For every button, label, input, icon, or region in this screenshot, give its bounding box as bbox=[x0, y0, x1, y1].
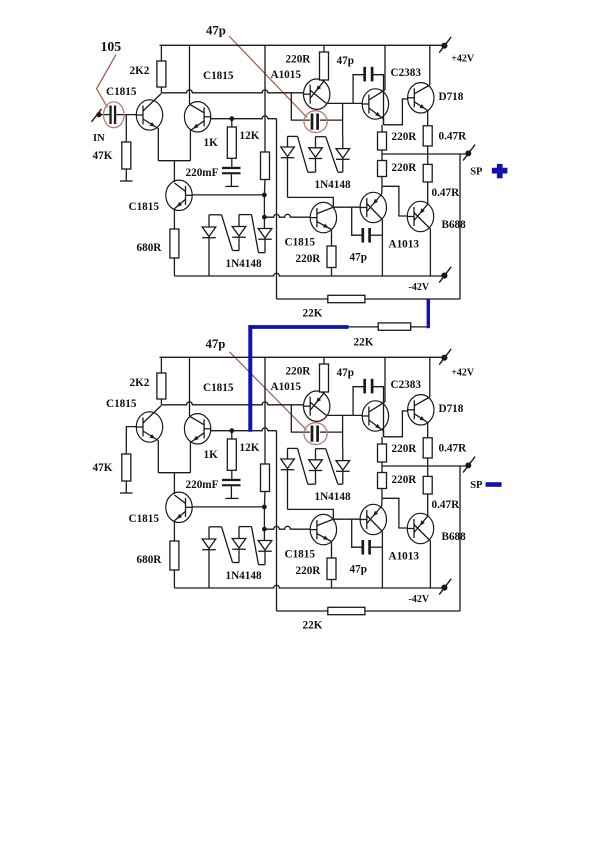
resistor 12K bbox=[240, 45, 270, 195]
transistor D718 bbox=[408, 45, 464, 126]
svg-text:0.47R: 0.47R bbox=[439, 443, 468, 455]
resistor 220R driver emitter' bbox=[296, 558, 337, 588]
svg-text:220R: 220R bbox=[392, 474, 418, 486]
wire driver collector node' bbox=[288, 509, 360, 519]
wire feedback node vertical bbox=[276, 119, 278, 299]
transistor C2383 bbox=[362, 45, 421, 125]
terminal +42V' bbox=[439, 349, 475, 379]
capacitor 47p C2383' bbox=[337, 367, 384, 437]
svg-text:C1815: C1815 bbox=[106, 398, 137, 410]
resistor 220R upper output bbox=[378, 125, 418, 154]
wire Q1 collector to A1015 base' bbox=[161, 402, 303, 405]
transistor Q4 C1815 current-source bbox=[129, 180, 193, 229]
resistor 680R' bbox=[137, 541, 179, 588]
svg-text:1N4148: 1N4148 bbox=[315, 179, 351, 191]
svg-text:47K: 47K bbox=[93, 462, 113, 474]
wire blue bridge vertical left bbox=[248, 325, 252, 432]
resistor 220R A1015 emitter bbox=[286, 45, 329, 80]
terminal SP bbox=[463, 145, 483, 178]
transistor Q1 C1815 input bbox=[136, 94, 162, 161]
resistor 220R upper output' bbox=[378, 437, 418, 466]
svg-text:680R: 680R bbox=[137, 242, 163, 254]
resistor 220R A1015 emitter' bbox=[286, 357, 329, 392]
svg-text:220R: 220R bbox=[296, 565, 322, 577]
resistor 22K bridge bbox=[349, 323, 429, 349]
wire -42V rail' bbox=[174, 585, 444, 588]
label 47p (miller cap callout ch2) bbox=[206, 337, 307, 430]
svg-text:1N4148: 1N4148 bbox=[226, 258, 262, 270]
capacitor 47p A1013 bbox=[350, 207, 383, 263]
svg-text:+42V: +42V bbox=[451, 368, 475, 379]
wire feedback bottom rail bbox=[277, 298, 461, 300]
svg-text:220R: 220R bbox=[392, 443, 418, 455]
terminal -42V bbox=[409, 267, 452, 293]
svg-text:220R: 220R bbox=[286, 54, 312, 66]
terminal +42V bbox=[439, 37, 475, 65]
svg-text:220R: 220R bbox=[286, 366, 312, 378]
transistor Q4 C1815 current-source' bbox=[129, 492, 193, 541]
transistor Q2 C1815 feedback bbox=[184, 45, 233, 160]
resistor 220R lower output' bbox=[378, 466, 418, 498]
svg-text:680R: 680R bbox=[137, 554, 163, 566]
svg-text:47p: 47p bbox=[350, 564, 367, 576]
wire to B688 base bbox=[382, 186, 407, 216]
node diode-bias junction bbox=[262, 193, 267, 229]
wire emitters common node bbox=[158, 161, 190, 182]
svg-text:1K: 1K bbox=[204, 137, 219, 149]
svg-text:D718: D718 bbox=[439, 91, 464, 103]
label 47p (miller cap callout) bbox=[206, 23, 307, 117]
transistor Q2 C1815 feedback' bbox=[184, 357, 233, 472]
diodes 1N4148 bias string left' bbox=[202, 527, 272, 588]
wire emitters common node' bbox=[158, 473, 190, 494]
polarity - (blue) bbox=[486, 482, 502, 487]
terminal SP' bbox=[463, 457, 483, 491]
wire feedback bottom rail' bbox=[277, 610, 461, 612]
svg-text:47K: 47K bbox=[93, 150, 113, 162]
wire driver base' bbox=[264, 526, 310, 529]
svg-text:47p: 47p bbox=[206, 23, 226, 37]
capacitor 47p miller (red circled) bbox=[291, 93, 342, 136]
transistor Q5 C1815 driver' bbox=[285, 514, 337, 560]
svg-text:12K: 12K bbox=[240, 130, 260, 142]
svg-text:A1013: A1013 bbox=[389, 239, 420, 251]
wire Q4 base to diode node' bbox=[192, 506, 264, 508]
svg-text:47p: 47p bbox=[337, 367, 354, 379]
svg-text:22K: 22K bbox=[303, 308, 323, 320]
svg-text:C2383: C2383 bbox=[391, 67, 422, 79]
svg-text:IN: IN bbox=[93, 133, 105, 144]
svg-text:C1815: C1815 bbox=[203, 70, 234, 82]
diodes 1N4148 bias string left bbox=[202, 215, 272, 276]
svg-text:0.47R: 0.47R bbox=[439, 131, 468, 143]
capacitor 47p miller (red circled)' bbox=[291, 405, 342, 448]
svg-text:-42V: -42V bbox=[409, 594, 430, 605]
wire +42V top rail' bbox=[160, 356, 445, 358]
wire to B688 base' bbox=[382, 498, 407, 528]
capacitor 47p A1013' bbox=[350, 519, 383, 575]
wire Q2 base node bbox=[211, 116, 277, 121]
transistor A1015 bbox=[271, 69, 330, 109]
wire -42V rail bbox=[174, 273, 444, 276]
svg-text:B688: B688 bbox=[442, 219, 467, 231]
capacitor 220mF bbox=[186, 167, 241, 187]
svg-text:C1815: C1815 bbox=[106, 86, 137, 98]
svg-text:12K: 12K bbox=[240, 442, 260, 454]
transistor Q5 C1815 driver bbox=[285, 202, 337, 248]
svg-text:B688: B688 bbox=[442, 531, 467, 543]
svg-text:220R: 220R bbox=[392, 131, 418, 143]
svg-text:C1815: C1815 bbox=[129, 201, 160, 213]
transistor D718' bbox=[408, 357, 464, 438]
svg-text:47p: 47p bbox=[350, 252, 367, 264]
svg-text:D718: D718 bbox=[439, 403, 464, 415]
svg-text:A1015: A1015 bbox=[271, 69, 302, 81]
resistor 0.47R lower bbox=[423, 154, 460, 205]
resistor 0.47R upper bbox=[423, 126, 467, 154]
svg-text:C1815: C1815 bbox=[129, 513, 160, 525]
resistor 12K' bbox=[240, 357, 270, 507]
svg-text:SP: SP bbox=[470, 480, 483, 491]
transistor B688' bbox=[407, 513, 466, 588]
svg-text:-42V: -42V bbox=[409, 282, 430, 293]
wire +42V top rail bbox=[160, 44, 445, 46]
resistor 47K bbox=[93, 115, 133, 181]
node diode-bias junction' bbox=[262, 505, 267, 541]
svg-text:220mF: 220mF bbox=[186, 167, 219, 179]
resistor 220R lower output bbox=[378, 154, 418, 186]
svg-text:0.47R: 0.47R bbox=[432, 499, 461, 511]
wire A1015 collector to C2383 base bbox=[326, 102, 362, 104]
wire SP output bbox=[382, 153, 468, 155]
svg-text:22K: 22K bbox=[354, 337, 374, 349]
svg-text:220R: 220R bbox=[392, 162, 418, 174]
capacitor C-in 105 (red circled) bbox=[102, 86, 137, 128]
wire blue bridge vertical right bbox=[427, 299, 430, 328]
resistor 0.47R lower' bbox=[423, 466, 460, 517]
wire driver base bbox=[264, 214, 310, 217]
wire to D718 base' bbox=[384, 411, 408, 437]
svg-text:47p: 47p bbox=[337, 55, 354, 67]
svg-text:C1815: C1815 bbox=[285, 237, 316, 249]
svg-text:1N4148: 1N4148 bbox=[315, 491, 351, 503]
wire Q2 base node' bbox=[211, 428, 277, 433]
svg-text:0.47R: 0.47R bbox=[432, 187, 461, 199]
svg-text:C2383: C2383 bbox=[391, 379, 422, 391]
wire Q1 collector to A1015 base bbox=[161, 90, 303, 93]
resistor 680R bbox=[137, 229, 179, 276]
svg-text:47p: 47p bbox=[206, 337, 226, 351]
transistor B688 bbox=[407, 201, 466, 275]
svg-text:C1815: C1815 bbox=[203, 382, 234, 394]
svg-text:2K2: 2K2 bbox=[130, 377, 150, 389]
svg-text:105: 105 bbox=[101, 39, 122, 54]
svg-text:220R: 220R bbox=[296, 253, 322, 265]
polarity + (blue) bbox=[492, 164, 508, 178]
wire to D718 base bbox=[384, 99, 408, 125]
transistor A1013' bbox=[360, 498, 419, 588]
svg-text:+42V: +42V bbox=[451, 54, 475, 65]
wire blue bridge horizontal bbox=[248, 325, 348, 329]
svg-text:220mF: 220mF bbox=[186, 479, 219, 491]
resistor 1K' bbox=[204, 431, 237, 479]
wire A1015 collector to C2383 base' bbox=[326, 414, 362, 416]
terminal -42V' bbox=[409, 579, 452, 605]
resistor 2K2 bbox=[130, 45, 166, 93]
resistor 2K2' bbox=[130, 357, 166, 405]
resistor 22K feedback bbox=[303, 295, 365, 319]
resistor 22K feedback' bbox=[303, 607, 365, 631]
wire output tap to feedback' bbox=[459, 466, 461, 611]
wire Q1' base to 47K bbox=[126, 427, 136, 454]
svg-text:22K: 22K bbox=[303, 620, 323, 632]
resistor 1K bbox=[204, 119, 237, 167]
wire feedback node vertical' bbox=[276, 431, 278, 611]
transistor A1013 bbox=[360, 186, 419, 275]
resistor 0.47R upper' bbox=[423, 438, 467, 466]
capacitor 47p C2383 bbox=[337, 55, 384, 125]
svg-text:C1815: C1815 bbox=[285, 549, 316, 561]
capacitor 220mF' bbox=[186, 479, 241, 499]
wire driver collector node bbox=[288, 197, 360, 207]
svg-text:SP: SP bbox=[470, 166, 483, 177]
diodes 1N4148 bias string right' bbox=[281, 448, 351, 509]
wire Q4 base to diode node bbox=[192, 194, 264, 196]
svg-text:2K2: 2K2 bbox=[130, 65, 150, 77]
wire output tap to feedback bbox=[459, 154, 461, 299]
wire SP output' bbox=[382, 465, 468, 467]
resistor 47K' bbox=[93, 454, 133, 493]
diodes 1N4148 bias string right bbox=[281, 136, 351, 197]
transistor C2383' bbox=[362, 357, 421, 437]
transistor Q1 C1815 input' bbox=[106, 398, 163, 473]
terminal IN bbox=[92, 109, 106, 144]
svg-text:A1013: A1013 bbox=[389, 551, 420, 563]
label 105 (input cap value callout) bbox=[97, 39, 122, 108]
resistor 220R driver emitter bbox=[296, 246, 337, 276]
transistor A1015' bbox=[271, 381, 330, 421]
svg-text:A1015: A1015 bbox=[271, 381, 302, 393]
svg-text:1N4148: 1N4148 bbox=[226, 570, 262, 582]
svg-text:1K: 1K bbox=[204, 449, 219, 461]
